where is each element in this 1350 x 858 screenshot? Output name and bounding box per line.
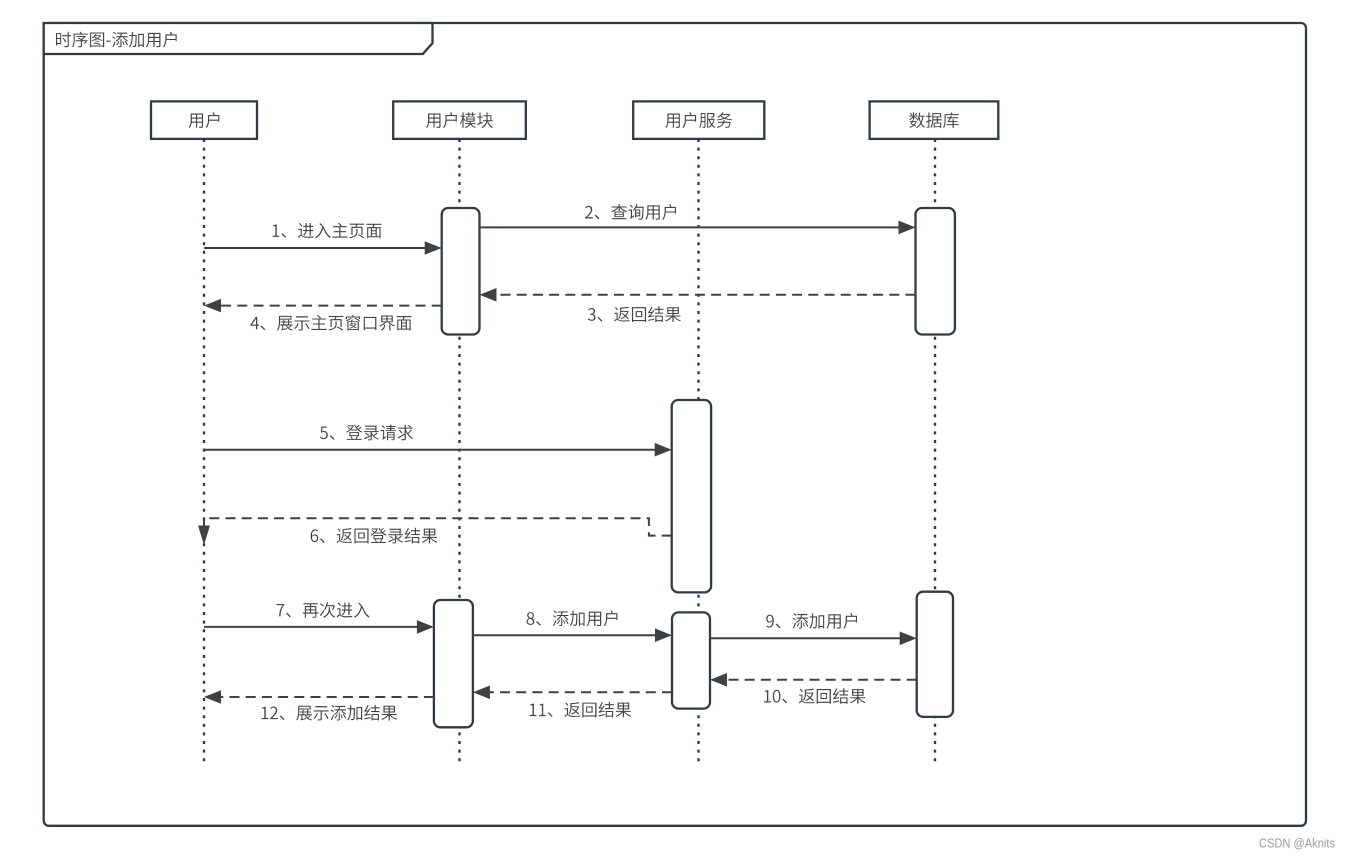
- message 5 登录请求: [204, 449, 657, 451]
- activation bar 用户模块 #2: [434, 600, 473, 727]
- actor label 数据库: [909, 112, 959, 128]
- message 8 label: [527, 610, 618, 626]
- message 12 label: [262, 705, 398, 721]
- lifeline 用户模块: [458, 139, 460, 762]
- actor box 数据库: [870, 101, 999, 138]
- message 11 返回结果: [488, 691, 672, 693]
- message 10 label: [764, 688, 866, 704]
- actor label 用户模块: [426, 112, 493, 128]
- message 12 展示添加结果: [219, 696, 434, 698]
- message 4 展示主页窗口界面: [219, 305, 442, 307]
- frame title 时序图-添加用户: [56, 32, 177, 48]
- lifeline 用户服务: [697, 139, 699, 762]
- activation bar 数据库 #2: [917, 592, 953, 717]
- message 3 label: [588, 306, 681, 322]
- actor box 用户模块: [393, 101, 526, 138]
- lifeline 数据库: [934, 139, 936, 762]
- message 1 进入主页面: [204, 247, 427, 249]
- message 4 label: [250, 315, 411, 331]
- message 6 label: [311, 528, 438, 544]
- message 2 查询用户: [480, 226, 901, 228]
- activation bar 用户服务 #1: [672, 400, 711, 592]
- message 1 label: [273, 223, 382, 239]
- message 7 再次进入: [204, 626, 419, 628]
- frame title tab: [44, 23, 433, 54]
- activation bar 用户服务 #2: [672, 612, 710, 708]
- activation bar 用户模块 #1: [442, 208, 480, 335]
- message 7 label: [277, 602, 370, 618]
- actor label 用户服务: [665, 112, 732, 128]
- message 8 添加用户: [473, 634, 657, 636]
- svg-text:CSDN @Aknits: CSDN @Aknits: [1259, 836, 1335, 851]
- lifeline 用户: [203, 139, 205, 762]
- message 9 label: [766, 613, 857, 629]
- message 10 返回结果: [725, 679, 917, 681]
- actor box 用户: [151, 101, 257, 138]
- message 11 label: [530, 702, 632, 718]
- message 5 label: [320, 425, 413, 441]
- actor box 用户服务: [633, 101, 764, 138]
- message 9 添加用户: [710, 637, 902, 639]
- activation bar 数据库 #1: [916, 208, 955, 335]
- message 3 返回结果: [495, 294, 916, 296]
- message 2 label: [585, 204, 676, 220]
- message 6 返回登录结果: [204, 518, 672, 535]
- actor label 用户: [189, 112, 220, 128]
